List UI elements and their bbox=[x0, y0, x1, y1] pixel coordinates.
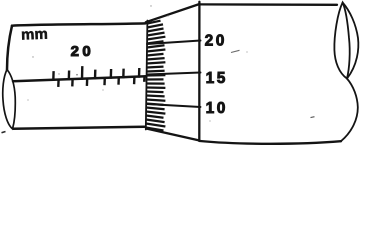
stray dot near scale bbox=[76, 74, 78, 76]
stray scan mark right of 20 bbox=[231, 50, 240, 52]
svg-text:mm: mm bbox=[21, 26, 48, 44]
svg-text:15: 15 bbox=[206, 70, 228, 87]
stray scan mark on thimble body bbox=[311, 116, 315, 119]
sleeve end ellipse bbox=[3, 70, 16, 129]
faint scan speckles bbox=[27, 5, 247, 121]
thimble bevel left edge bbox=[146, 21, 148, 130]
svg-text:20: 20 bbox=[71, 43, 95, 60]
sleeve left edge curve bbox=[7, 26, 12, 70]
right lower break curve bbox=[341, 79, 358, 142]
thimble cone top edge bbox=[146, 4, 200, 22]
main scale lower ticks (half mm) bbox=[58, 76, 144, 87]
stray scan mark bottom-left bbox=[2, 132, 6, 133]
sleeve bottom edge bbox=[13, 127, 145, 129]
thimble bevel graduation fan bbox=[146, 21, 166, 131]
svg-text:10: 10 bbox=[206, 100, 228, 117]
thimble cone bottom edge bbox=[146, 129, 199, 141]
thimble top edge bbox=[200, 3, 337, 6]
svg-text:20: 20 bbox=[205, 33, 227, 50]
thimble bottom edge bbox=[200, 141, 341, 144]
thimble 15 graduation line bbox=[147, 73, 201, 75]
main scale upper ticks (whole mm) bbox=[53, 66, 139, 81]
sleeve top edge bbox=[12, 23, 146, 25]
thimble 20 graduation line bbox=[147, 41, 201, 45]
index line on sleeve bbox=[13, 76, 146, 81]
thimble 10 graduation line bbox=[147, 104, 201, 107]
thimble junction vertical line bbox=[198, 2, 200, 141]
right end leaf (torn tube end) bbox=[334, 3, 349, 79]
